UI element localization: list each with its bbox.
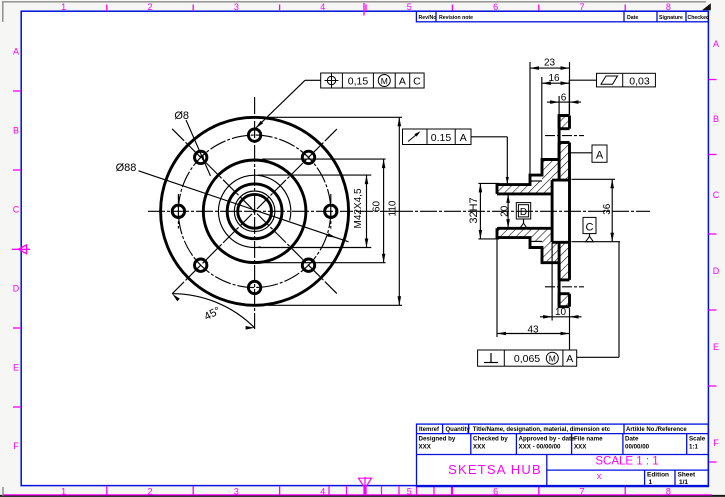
zone numbers top — [61, 2, 671, 12]
svg-text:A: A — [460, 132, 467, 144]
boss circle D60 — [203, 160, 306, 263]
counterbore — [552, 180, 569, 242]
dim M42X4,5 extension lines — [258, 175, 371, 247]
bottom sheet trim line — [3, 494, 712, 496]
svg-text:110: 110 — [388, 200, 399, 216]
svg-text:1/1: 1/1 — [679, 479, 688, 486]
left centering mark — [12, 245, 30, 254]
svg-text:Edition: Edition — [647, 472, 669, 479]
runout frame — [403, 129, 472, 145]
svg-text:0,15: 0,15 — [348, 76, 369, 88]
bore circle D20 — [238, 194, 272, 228]
flatness frame leader — [569, 80, 596, 115]
svg-text:6: 6 — [561, 93, 567, 104]
svg-text:5: 5 — [407, 2, 412, 12]
front view 45deg centerline — [172, 129, 337, 294]
front view 135deg centerline — [172, 129, 337, 294]
svg-text:F: F — [713, 438, 719, 448]
runout symbol — [408, 133, 419, 142]
zone numbers bottom — [61, 487, 671, 497]
zone ticks right — [708, 80, 716, 463]
svg-text:D: D — [713, 266, 720, 276]
flatness symbol — [601, 76, 618, 84]
side view centerline — [396, 210, 650, 212]
bore lines — [497, 194, 552, 228]
svg-text:B: B — [13, 126, 19, 136]
bolt hole right — [325, 205, 337, 217]
svg-text:Artikle No./Reference: Artikle No./Reference — [626, 427, 687, 433]
dim 10 — [540, 243, 582, 321]
svg-text:XXX: XXX — [419, 444, 432, 451]
thread root lines — [530, 181, 542, 241]
svg-text:C: C — [713, 190, 720, 200]
dim 43 — [497, 239, 570, 350]
left hole centerline — [177, 194, 179, 229]
dim 60 extension lines — [262, 159, 386, 263]
dim 110 extension lines — [268, 117, 402, 305]
svg-text:M: M — [549, 354, 556, 364]
flatness frame — [597, 73, 656, 87]
svg-text:Designed by: Designed by — [419, 436, 456, 443]
dim 16 — [542, 77, 570, 159]
hole centerline bottom — [545, 286, 584, 288]
flange right face segments — [568, 116, 571, 307]
position leader — [256, 80, 321, 128]
svg-text:00/00/00: 00/00/00 — [625, 444, 650, 451]
bolt hole upper-right — [302, 151, 314, 163]
centerline between views — [356, 210, 396, 212]
title block header texts — [419, 427, 687, 433]
window top edge line — [2, 2, 706, 22]
bolt hole upper-left — [195, 151, 207, 163]
dim 23 — [530, 62, 570, 174]
svg-text:3: 3 — [234, 2, 239, 12]
perpendicularity frame — [478, 350, 577, 366]
svg-text:A: A — [713, 39, 719, 49]
window bottom edge line — [0, 487, 725, 496]
hole centerline top — [545, 135, 584, 137]
svg-text:0,03: 0,03 — [629, 75, 650, 87]
svg-text:16: 16 — [548, 73, 560, 84]
right hole centerline — [330, 194, 332, 229]
svg-text:A: A — [13, 47, 19, 57]
svg-text:Rev/No: Rev/No — [419, 15, 437, 21]
thread major circle M42 (3/4) — [218, 175, 290, 247]
leader D8 — [186, 120, 211, 176]
svg-text:1: 1 — [649, 479, 653, 486]
bolt hole lower-right — [302, 259, 314, 271]
svg-text:C: C — [413, 76, 421, 88]
datum A box — [592, 145, 607, 162]
bolt hole bottom — [248, 281, 260, 293]
svg-text:Quantity: Quantity — [446, 427, 471, 433]
side view outline — [497, 116, 570, 194]
svg-text:Date: Date — [627, 15, 638, 21]
svg-text:2: 2 — [147, 2, 152, 12]
svg-text:60: 60 — [372, 201, 383, 213]
bolt hole left — [172, 205, 184, 217]
svg-text:A: A — [596, 150, 604, 162]
svg-text:Title/Name, designation, mater: Title/Name, designation, material, dimen… — [473, 427, 611, 433]
svg-text:SKETSA HUB: SKETSA HUB — [448, 462, 542, 477]
svg-text:E: E — [13, 362, 19, 372]
perpendicularity leader — [577, 242, 619, 358]
svg-text:E: E — [713, 342, 719, 352]
svg-text:Ø88: Ø88 — [116, 162, 137, 174]
svg-text:Approved by - date: Approved by - date — [519, 436, 576, 443]
leader D88 — [139, 171, 349, 242]
svg-text:Itemref: Itemref — [419, 427, 440, 433]
svg-text:Ø8: Ø8 — [174, 110, 189, 122]
bolt hole lower-left — [195, 259, 207, 271]
svg-text:Checked: Checked — [688, 15, 710, 21]
svg-text:Sheet: Sheet — [678, 472, 697, 479]
svg-text:XXX: XXX — [574, 444, 587, 451]
datum C box — [583, 217, 596, 241]
svg-text:Date: Date — [625, 436, 639, 443]
dim 110 line — [398, 117, 400, 305]
zone ticks left — [13, 91, 21, 407]
dim 36 — [572, 179, 621, 241]
svg-text:1:1: 1:1 — [689, 444, 699, 451]
svg-text:Scale: Scale — [689, 436, 706, 443]
front view horizontal centerline — [148, 210, 353, 212]
svg-text:Revision note: Revision note — [439, 15, 473, 21]
section hatching — [497, 116, 570, 307]
zone letters right — [713, 39, 720, 448]
zone ticks bottom — [107, 486, 625, 495]
top centering mark — [363, 3, 365, 16]
flange bolt hole bottom — [559, 280, 569, 294]
title block row2 texts — [419, 436, 706, 451]
svg-text:XXX: XXX — [473, 444, 486, 451]
svg-text:C: C — [586, 221, 594, 233]
svg-text:1: 1 — [61, 2, 66, 12]
svg-text:M42X4,5: M42X4,5 — [353, 188, 364, 228]
svg-text:0.15: 0.15 — [431, 132, 452, 144]
zone ticks top — [107, 5, 625, 12]
revision table headers — [419, 15, 710, 21]
svg-text:4: 4 — [320, 2, 325, 12]
front view vertical centerline — [254, 97, 256, 329]
dim M42X4,5 line — [366, 175, 368, 247]
dim 32H7 — [478, 183, 499, 239]
svg-text:A: A — [399, 76, 406, 88]
zone letters left — [13, 47, 20, 452]
svg-text:A: A — [566, 353, 573, 365]
svg-text:Signature: Signature — [659, 15, 683, 21]
perpendicularity M circle — [546, 352, 558, 364]
barrel end circle D32 — [227, 184, 282, 239]
position tolerance frame — [321, 73, 424, 88]
svg-text:10: 10 — [555, 307, 567, 318]
svg-text:32H7: 32H7 — [468, 197, 480, 223]
edition sheet texts — [647, 472, 696, 487]
bolt hole top — [248, 129, 260, 141]
svg-text:D: D — [13, 283, 20, 293]
flange left face segments — [558, 116, 561, 307]
svg-text:23: 23 — [544, 58, 556, 69]
svg-text:File name: File name — [574, 436, 603, 443]
position M circle — [378, 75, 390, 87]
bottom centering mark — [359, 477, 372, 495]
svg-text:XXX - 00/00/00: XXX - 00/00/00 — [519, 444, 562, 451]
perpendicularity symbol — [484, 353, 498, 363]
dim 20 — [507, 194, 509, 228]
svg-text:Checked by: Checked by — [473, 436, 508, 443]
runout leader — [471, 137, 507, 184]
svg-text:36: 36 — [602, 203, 613, 215]
bottom reference ruler — [329, 486, 452, 495]
flange bolt hole top — [559, 129, 569, 143]
svg-text:F: F — [13, 441, 19, 451]
svg-text:B: B — [713, 114, 719, 124]
svg-text:C: C — [13, 205, 20, 215]
top-right corner mark — [702, 3, 711, 10]
svg-text:20: 20 — [500, 205, 511, 217]
dim 60 line — [383, 159, 385, 263]
dim 6 — [547, 96, 581, 115]
svg-text:SCALE 1 : 1: SCALE 1 : 1 — [595, 456, 658, 468]
bore chamfer circle — [234, 191, 275, 232]
outer flange circle D110 — [161, 117, 349, 305]
svg-text:D: D — [520, 207, 527, 218]
title block grid — [417, 424, 709, 487]
position symbol — [325, 74, 339, 88]
revision table — [416, 11, 708, 22]
svg-text:0,065: 0,065 — [514, 353, 540, 365]
dim 45deg arc — [172, 294, 254, 328]
datum D box — [516, 203, 530, 229]
bolt circle centerline — [178, 135, 330, 287]
svg-text:43: 43 — [527, 325, 539, 336]
datum A leader — [571, 152, 593, 154]
svg-text:x: x — [597, 471, 602, 481]
svg-text:M: M — [381, 76, 388, 86]
